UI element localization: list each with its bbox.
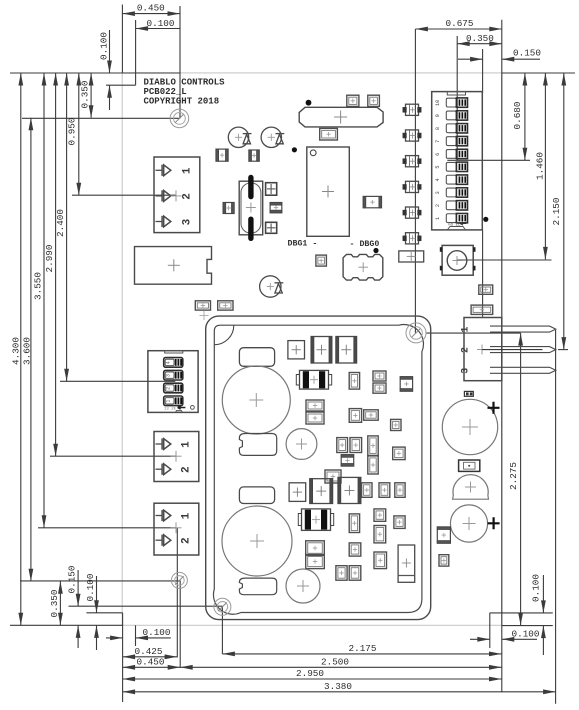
extension line x=177.3 from connector J3 [176,528,178,658]
push button SW2 [440,245,476,275]
capacitor C1 [228,127,251,147]
pad M29 [374,552,387,569]
dimension 0.450 bottom [123,656,181,669]
extension line y=456.2 connector J2 [50,455,176,457]
IC U1 [307,147,350,236]
capacitor C10 [450,505,487,542]
dimension 2.400 left [55,73,69,381]
connector J3 (2-pin) [154,503,199,555]
svg-text:3: 3 [181,218,193,225]
dimension 0.350 bottom-left [49,581,63,625]
polarity dot D3 [483,217,488,222]
extension line y=527.8 connector J3 [38,527,176,529]
svg-text:1.460: 1.460 [534,152,545,180]
svg-text:1: 1 [180,512,192,519]
svg-text:2.950: 2.950 [296,668,324,679]
svg-text:3: 3 [166,374,172,377]
dimension 3.600 left [21,118,33,582]
svg-text:2: 2 [181,193,193,200]
dimension 1.460 right [534,73,548,259]
svg-text:4: 4 [166,361,172,364]
capacitor C4 bracket bottom [239,434,276,456]
dimension 0.350 top-right [457,33,502,46]
pad M21c [395,483,405,498]
pad M18 [289,483,306,502]
module outline outer [206,316,431,619]
extension line x=135.5 bottom [135,625,137,646]
pad M30b [349,566,361,581]
dimension 0.450 top [122,3,180,16]
extension line y=381.3 DIP switch SW2 [60,380,175,382]
svg-text:COPYRIGHT 2018: COPYRIGHT 2018 [144,96,220,106]
extension line y=581.3 bottom-left hole [20,580,180,582]
LED D8 [403,233,421,244]
extension line y=160.3 DIP centre [447,159,530,161]
svg-text:1: 1 [460,327,471,333]
svg-text:1: 1 [166,400,172,403]
svg-text:1: 1 [180,441,192,448]
dimension 2.500 bottom [180,656,501,669]
dimension 0.100 bottom-right horizontal [470,628,539,641]
pad M21b [379,483,390,498]
svg-text:0.100: 0.100 [99,32,110,60]
dimension 2.950 bottom [123,668,502,681]
dimension 3.550 left [33,73,47,528]
svg-text:3.380: 3.380 [324,681,352,692]
polarity dot D2 [292,147,297,152]
capacitor C9 (D-shape) [453,475,489,500]
svg-text:0.100: 0.100 [143,627,171,638]
extension line x=135.6 top notch [135,20,137,85]
pad F1-b [368,95,380,106]
extension line bottom edge right of board [502,625,553,627]
svg-text:DIABLO CONTROLS: DIABLO CONTROLS [144,78,226,88]
fuse F1 body [299,107,383,127]
svg-text:2.400: 2.400 [55,209,66,237]
resistor R2 [459,460,480,471]
pad M16 [368,456,378,474]
svg-text:0.100: 0.100 [512,628,540,639]
capacitor M3 [336,337,357,364]
svg-text:- DBG0: - DBG0 [350,240,380,249]
plus mark C8 [488,402,500,414]
pad Y1-left [223,203,234,214]
dimension 0.680 right [512,73,527,160]
svg-text:0.100: 0.100 [85,574,96,602]
svg-text:2.150: 2.150 [551,198,562,226]
pad P8 [437,527,450,543]
svg-text:3: 3 [460,368,471,374]
pad M13 [368,436,378,456]
pad M10 [364,410,379,420]
extension line x=222.4 from module hole [221,607,223,654]
svg-text:2.990: 2.990 [44,245,55,273]
diode M4 [296,370,331,389]
polarity dot D1 [306,100,312,106]
DIP switch SW3 (4-pos) [148,351,198,413]
pad P7 [464,391,473,396]
origin cross [200,311,209,320]
extension line bottom edge left [10,624,123,626]
capacitor C5 [286,429,317,460]
module corner arc TL [214,325,234,345]
extension line y=259.4 push button centre [457,259,552,261]
extension line right edge x=501.8 [501,20,503,693]
svg-text:2: 2 [460,347,471,353]
svg-text:A8 2E: A8 2E [448,224,461,228]
dimension 0.100 top [136,18,180,31]
label DBG0 [350,240,380,249]
svg-text:13 2E: 13 2E [164,407,177,411]
pad M8b [306,412,324,424]
dimension 3.380 bottom [123,681,556,694]
extension line x=180 from top hole [179,6,181,119]
svg-text:10: 10 [435,100,441,106]
connector J4 (3-pin right angle) [460,318,556,381]
pad M7 [400,377,412,392]
pad M25 [394,516,405,529]
diode M22 [298,509,333,531]
dimension 0.675 top-right [415,18,501,32]
svg-text:0.950: 0.950 [67,118,78,146]
pad M12b [350,438,362,453]
dimension 0.150 top-right [458,48,541,62]
pad M27a [306,541,325,556]
pad F1-a [347,95,359,106]
capacitor C6 [222,506,292,576]
title text DIABLO CONTROLS [144,78,226,107]
dimension 0.425 bottom [123,646,178,659]
svg-text:2.500: 2.500 [321,656,349,667]
svg-text:2: 2 [435,204,441,207]
plus mark C10 [488,517,500,529]
dimension 0.100 bottom [106,627,171,640]
pad P5 [195,301,210,310]
capacitor C7 [286,569,320,603]
capacitor C8 [442,399,497,454]
pad M15 [393,447,405,460]
dimension 0.350 top-left [80,73,94,118]
capacitor M2 [311,337,332,364]
svg-text:3.550: 3.550 [33,272,44,300]
pad M1 [288,341,305,359]
dimension 2.150 right [551,73,566,350]
extension line x=482.6 DIP body edge [482,49,484,317]
pad M30a [336,566,347,581]
extension line y=349.6 connector pin 2 [482,349,568,351]
pad M27b [306,555,325,569]
jumper JP1 (clover) [343,254,383,280]
extension line top-left notch step y=85.2 [106,84,136,86]
pad Y1-br [266,222,277,233]
mounting hole top-left [170,109,189,128]
pad M17 [325,470,341,483]
pad M6a [373,371,386,381]
resistor M31 [398,545,415,582]
svg-text:5: 5 [435,166,441,169]
pad M5 [349,373,359,390]
mounting hole bottom-left [171,572,187,588]
extension line bottom-right notch side [489,613,491,648]
svg-text:0.350: 0.350 [466,33,494,44]
capacitor C4 [222,366,290,434]
LED D7 [403,207,421,218]
capacitor C6 bracket bottom [239,578,276,595]
dimension 4.300 left [10,73,23,625]
polarity dot D4 [373,248,378,253]
svg-text:2.175: 2.175 [349,643,377,654]
dimension 2.990 left [44,73,58,456]
DIP switch SW1 (10-pos) [432,92,483,230]
pad M21a [362,483,372,498]
extension line y=612.8 bottom-left notch [86,612,122,614]
dimension 2.175 bottom [222,643,501,656]
capacitor C2 [261,127,284,147]
pad P2 [249,150,259,161]
svg-text:0.150: 0.150 [513,48,541,59]
LED D6 [403,181,421,192]
connector J2 (2-pin) [154,432,199,482]
pad P9 [439,555,449,566]
mounting hole module bottom-left [214,598,231,615]
capacitor C6 bracket top [239,487,274,504]
pad P6 [218,301,233,310]
capacitor M19 [310,479,333,504]
svg-text:7: 7 [435,140,441,143]
pad Y1-right [270,203,282,213]
capacitor C3 [260,276,284,297]
pad M6b [373,383,386,393]
pad P1 [216,149,228,161]
svg-text:9: 9 [435,114,441,117]
svg-text:2: 2 [180,466,192,473]
pad Y1-tr [266,183,277,196]
svg-text:6: 6 [435,153,441,156]
svg-text:4.300: 4.300 [10,337,21,365]
dimension 0.100 top-left vertical [99,30,112,110]
extension line y=117.8 from top hole to left [22,117,180,119]
extension line y=606.2 module hole [69,605,223,607]
svg-text:0.350: 0.350 [80,81,91,109]
svg-text:DBG1 -: DBG1 - [288,240,318,249]
svg-text:3: 3 [435,191,441,194]
label DBG1 [288,240,318,249]
pad P3 [363,196,381,207]
extension line x=457.2 DIP slider column [456,36,458,160]
resistor R1 [399,251,424,262]
pad M11 [391,419,401,430]
crystal Y1 [239,175,263,241]
mounting hole module top-right [406,323,426,343]
svg-text:2: 2 [166,387,172,390]
svg-text:0.100: 0.100 [531,574,542,602]
extension line y=195.2 connector J1 pin2 [72,194,176,196]
svg-text:0.350: 0.350 [49,590,60,618]
pad M12a [337,438,348,453]
pad M14 [341,455,354,466]
svg-text:0.675: 0.675 [446,18,474,29]
extension line y=333.1 module hole right [427,332,521,334]
pad M26 [374,526,386,543]
svg-text:0.100: 0.100 [147,18,175,29]
svg-text:0.425: 0.425 [135,646,163,657]
relay K1 [135,247,212,285]
dimension 2.275 right [508,333,523,625]
svg-text:0.680: 0.680 [512,102,523,130]
pad M9 [349,409,361,423]
capacitor M20 [338,477,361,503]
LED D4 [403,130,421,141]
pad P4 [316,255,327,266]
svg-text:3.600: 3.600 [21,337,32,365]
extension line top edge [10,72,575,74]
svg-text:1: 1 [435,217,441,220]
resistor R4 [471,305,493,314]
pad M8a [306,400,324,411]
dimension 0.100 bottom-right vertical [531,574,546,655]
dimension 0.150 bottom-left [67,566,81,648]
pad M23 [349,514,359,533]
capacitor C4 bracket top [239,348,274,367]
dimension 0.100 bottom-left [85,574,99,650]
svg-text:2.275: 2.275 [508,462,519,490]
extension line x=122.6 below board [122,613,124,702]
LED D3 [403,104,421,115]
LED D5 [403,156,421,167]
board outline (PCB edge) [122,73,502,625]
svg-text:1: 1 [181,167,193,174]
connector J1 (3-pin) [154,157,200,233]
svg-text:0.450: 0.450 [137,3,165,14]
extension line bottom-right notch top [490,612,553,614]
svg-text:4: 4 [435,178,441,181]
module outline inner [213,325,423,615]
svg-text:0.150: 0.150 [67,566,78,594]
pad F1-c [320,128,338,140]
svg-text:0.450: 0.450 [137,656,165,667]
dimension 0.950 left [67,73,82,195]
svg-text:8: 8 [435,127,441,130]
extension line x=122.4 above top-left corner [121,5,123,74]
pad M24 [374,509,386,521]
resistor R3 [479,285,493,294]
extension line x=180.2 from bottom-left hole [179,581,181,668]
extension line x=555.6 connector pin tips [555,330,557,704]
pad M28 [349,543,361,556]
extension line x=415.4 LED column / right hole [414,29,416,333]
svg-text:2: 2 [180,537,192,544]
